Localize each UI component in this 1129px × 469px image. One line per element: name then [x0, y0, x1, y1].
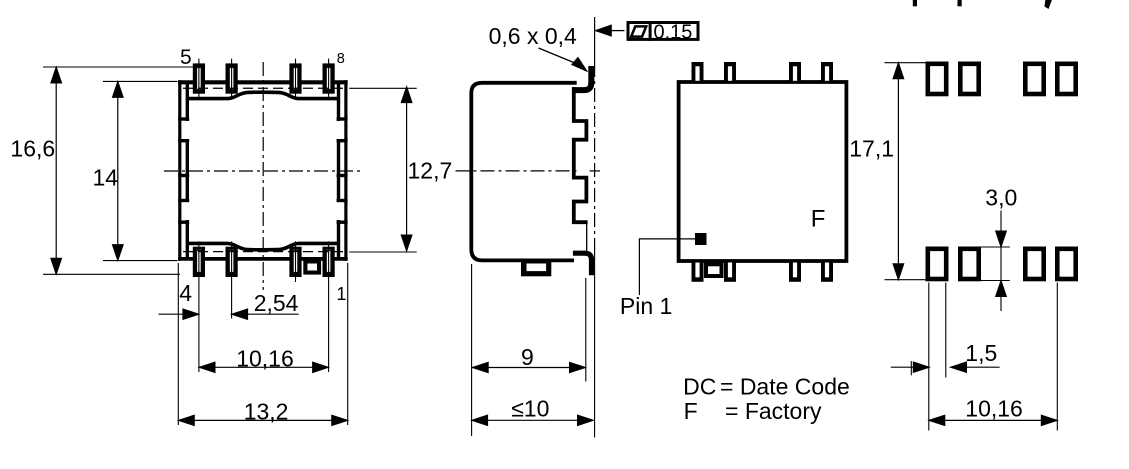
- flatness tolerance frame: [628, 23, 698, 40]
- pad bottom row x=958.5: [959, 247, 981, 281]
- view3 pin-1 marker square: [696, 234, 707, 245]
- svg-text:= Factory: = Factory: [725, 398, 822, 424]
- view2 left extension line: [471, 264, 473, 436]
- dimension 17,1: [897, 63, 899, 280]
- pad top row x=1023.5: [1024, 62, 1046, 96]
- view2 datum / seating plane line: [594, 17, 596, 63]
- svg-text:≤10: ≤10: [511, 396, 549, 422]
- view1 inner wall right: [337, 84, 340, 121]
- 1,5 tick: [910, 361, 912, 375]
- pad top row x=958.5: [959, 62, 981, 96]
- clipped text descenders at top edge: [913, 0, 916, 6]
- pad top row x=926: [926, 62, 948, 96]
- svg-text:Pin 1: Pin 1: [620, 293, 672, 319]
- view2 right edge with bumps: [574, 87, 588, 222]
- pad bottom row x=1023.5: [1024, 247, 1046, 281]
- view1 side notch rungs right: [337, 117, 348, 120]
- dimension &le;10: [472, 419, 594, 421]
- view2 horizontal centerline: [456, 170, 581, 172]
- pin 1 leader line: [639, 239, 695, 295]
- svg-text:F: F: [811, 206, 826, 233]
- svg-text:1,5: 1,5: [965, 340, 997, 366]
- dimension 16,6: [55, 67, 57, 274]
- svg-text:12,7: 12,7: [408, 158, 453, 184]
- svg-text:F: F: [684, 398, 698, 424]
- svg-text:DC: DC: [683, 374, 716, 400]
- view1 pin-1 polarity tab: [304, 260, 321, 274]
- pin bottom at x=231.6: [226, 247, 237, 276]
- svg-text:14: 14: [93, 165, 119, 191]
- pin bottom at x=198.9: [193, 247, 204, 276]
- view3 top pins: [692, 63, 703, 83]
- pad bottom row x=926: [926, 247, 948, 281]
- view3 bottom pins: [692, 261, 703, 281]
- view1 vertical centerline: [262, 62, 264, 290]
- svg-text:3,0: 3,0: [985, 184, 1017, 210]
- view1 side notch rungs left: [178, 117, 189, 120]
- view3 pin-1 tab: [705, 263, 724, 278]
- dimension 9: [472, 367, 585, 369]
- dimension 2,54: [159, 313, 199, 315]
- view1 core top edge (wavy): [187, 92, 340, 98]
- svg-text:= Date Code: = Date Code: [720, 374, 850, 400]
- svg-text:4: 4: [179, 280, 192, 306]
- pin top at x=231.6: [226, 64, 237, 93]
- svg-text:16,6: 16,6: [10, 135, 55, 161]
- view2 bottom gull-wing pin: [573, 253, 592, 275]
- view1 core bottom edge (wavy): [187, 243, 340, 249]
- pin bottom at x=295.5: [290, 247, 301, 276]
- leader line for 0,6 x 0,4: [539, 48, 579, 65]
- view3 body outline: [679, 82, 847, 261]
- view1 body outer outline: [178, 80, 348, 84]
- 9 extension line right: [585, 278, 587, 382]
- view1 hidden dashed line bottom: [183, 251, 343, 253]
- dimension 12,7: [406, 87, 408, 251]
- svg-text:1: 1: [336, 284, 346, 304]
- pin top at x=295.5: [290, 64, 301, 93]
- land pattern extension lines: [928, 283, 930, 431]
- svg-text:0,15: 0,15: [654, 22, 693, 44]
- dimension 13,2: [178, 419, 347, 421]
- view1 pin centerline stubs bottom / extension lines: [198, 241, 200, 372]
- view1 horizontal centerline: [164, 170, 364, 172]
- view1 hidden dashed line top: [183, 87, 343, 89]
- dimension 14: [117, 81, 119, 260]
- flatness symbol: [631, 26, 646, 36]
- dimension 10,16 (land pattern): [929, 419, 1058, 421]
- svg-text:13,2: 13,2: [244, 399, 289, 425]
- view1 inner wall left: [186, 84, 189, 121]
- view2 bottom pedestal: [522, 260, 551, 276]
- pad bottom row x=1055.5: [1056, 247, 1078, 281]
- view1 pin centerlines top: [198, 59, 200, 100]
- pad top row x=1055.5: [1056, 62, 1078, 96]
- flatness leader arrow: [609, 30, 625, 32]
- svg-text:9: 9: [521, 344, 534, 370]
- 13,2 extension lines: [177, 263, 179, 425]
- pin top at x=328.6: [323, 64, 334, 93]
- svg-text:17,1: 17,1: [849, 136, 894, 162]
- svg-text:8: 8: [337, 51, 345, 67]
- dimension 1,5: [891, 366, 930, 368]
- dimension 10,16 (view1): [199, 366, 329, 368]
- svg-text:10,16: 10,16: [236, 345, 294, 371]
- svg-text:10,16: 10,16: [965, 396, 1023, 422]
- svg-text:0,6 x 0,4: 0,6 x 0,4: [489, 23, 577, 49]
- view2 top gull-wing pin: [573, 66, 591, 90]
- pin top at x=198.9: [193, 64, 204, 93]
- pin bottom at x=328.6: [323, 247, 334, 276]
- svg-text:5: 5: [180, 46, 192, 69]
- svg-text:2,54: 2,54: [254, 290, 299, 316]
- view2 thin pin edge line: [586, 224, 588, 251]
- view2 body outline (left, top, bottom): [471, 83, 576, 261]
